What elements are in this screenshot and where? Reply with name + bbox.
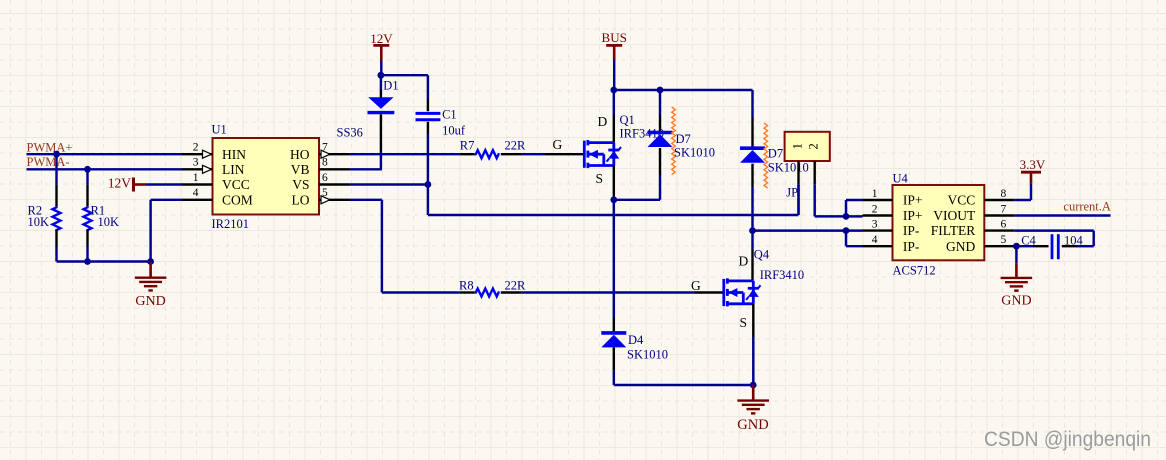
svg-text:HO: HO — [290, 147, 310, 162]
svg-text:VS: VS — [292, 177, 309, 192]
svg-text:3: 3 — [193, 157, 199, 169]
wire PWMA- net — [27, 168, 183, 170]
pin 1 of JP — [790, 143, 804, 184]
label R8 — [459, 279, 474, 293]
pin 6 FILTER — [931, 218, 1015, 238]
label U4 — [893, 172, 909, 186]
resistor R2 — [53, 154, 61, 261]
svg-text:C1: C1 — [442, 107, 457, 121]
wire FILTER to C4 — [1014, 231, 1093, 247]
svg-text:8: 8 — [1001, 188, 1007, 200]
wire IP- run — [753, 229, 847, 231]
label R1 — [91, 204, 106, 218]
svg-text:FILTER: FILTER — [931, 223, 976, 238]
wire HO to R7 — [350, 153, 460, 155]
svg-text:2: 2 — [193, 142, 199, 154]
pin 1 VCC — [182, 172, 250, 192]
power port 3.3V — [1020, 157, 1046, 184]
value IR2101 — [212, 217, 250, 231]
svg-text:22R: 22R — [505, 139, 527, 153]
power port 12V top — [370, 31, 393, 61]
junction Q1 source — [610, 196, 617, 203]
junction C1/VS — [425, 181, 432, 188]
net label current.A — [1063, 200, 1111, 214]
label D7 first — [676, 132, 691, 146]
wire R7 to Q1 gate — [522, 153, 545, 155]
junction pin5/C4/GND — [1013, 243, 1020, 250]
value IRF3410 of Q4 — [760, 268, 804, 282]
label Q1 — [620, 113, 635, 127]
wire D4 to GND rail — [614, 384, 753, 386]
compile squiggle at D7 second — [764, 123, 768, 188]
pin 1 IP+ — [863, 188, 923, 208]
svg-text:SK1010: SK1010 — [627, 348, 668, 362]
wire 12V to D1/C1 — [380, 61, 382, 75]
pin 2 IP+ — [863, 203, 923, 223]
svg-text:CSDN @jingbenqin: CSDN @jingbenqin — [984, 428, 1151, 451]
ground GND left — [135, 262, 167, 291]
diode D7 first — [648, 90, 673, 200]
junction at left GND — [147, 258, 154, 265]
transistor Q1 IRF3410 — [545, 90, 621, 200]
label U1 — [212, 123, 227, 137]
svg-text:GND: GND — [946, 239, 975, 254]
junction on PWMA+ at R2 — [53, 151, 60, 158]
svg-text:7: 7 — [1001, 203, 1007, 215]
label S of Q1 — [596, 171, 604, 186]
pin 6 VS — [292, 172, 349, 192]
label G of Q1 — [553, 137, 563, 152]
svg-text:8: 8 — [322, 157, 328, 169]
label G of Q4 — [691, 278, 701, 293]
value SK1010 of D4 — [627, 348, 668, 362]
junction IP+ node — [843, 213, 850, 220]
net label PWMA+ — [27, 141, 73, 155]
resistor R8 — [460, 289, 522, 297]
svg-text:GND: GND — [135, 294, 165, 309]
svg-text:VCC: VCC — [948, 193, 976, 208]
svg-text:GND: GND — [737, 417, 768, 433]
label D of Q4 — [739, 254, 749, 269]
svg-text:IP-: IP- — [903, 239, 920, 254]
wire R8 to Q4 gate — [522, 291, 695, 293]
value 22R of R7 — [505, 139, 527, 153]
svg-text:Q1: Q1 — [620, 113, 635, 127]
svg-text:SK1010: SK1010 — [768, 161, 809, 175]
wire IP+ to pins — [846, 200, 863, 216]
svg-text:current.A: current.A — [1063, 200, 1111, 214]
junction D7b/Q4 drain — [749, 227, 756, 234]
svg-text:3.3V: 3.3V — [1020, 157, 1046, 172]
pin 2 of JP — [807, 143, 821, 184]
wire IP- to pins — [846, 231, 863, 247]
svg-text:ACS712: ACS712 — [893, 263, 936, 277]
svg-text:IP+: IP+ — [903, 193, 923, 208]
svg-text:D1: D1 — [383, 79, 398, 93]
svg-text:12V: 12V — [108, 176, 132, 191]
svg-text:U1: U1 — [212, 123, 227, 137]
diode D7 second — [740, 118, 765, 231]
junction rail/D7a — [657, 87, 664, 94]
svg-text:IP-: IP- — [903, 223, 920, 238]
label C4 — [1021, 233, 1036, 247]
wire phase down — [613, 200, 615, 318]
svg-text:12V: 12V — [370, 31, 393, 46]
capacitor C1 — [416, 99, 441, 185]
diode D1 — [368, 75, 395, 169]
svg-text:U4: U4 — [893, 172, 909, 186]
wire to C1 top — [381, 75, 428, 99]
transistor Q4 IRF3410 — [695, 231, 761, 385]
wire Q1 source to D7a — [614, 199, 660, 201]
svg-text:C4: C4 — [1021, 233, 1036, 247]
ground GND right — [737, 385, 769, 413]
label D7 second — [768, 147, 783, 161]
svg-text:D7: D7 — [676, 132, 691, 146]
power port 12V left — [108, 176, 146, 192]
svg-text:7: 7 — [322, 142, 328, 154]
value SS36 of D1 — [337, 126, 363, 140]
value 22R of R8 — [505, 279, 527, 293]
pin 8 VB — [291, 157, 350, 177]
junction on PWMA- at R1 — [84, 166, 91, 173]
svg-text:D: D — [598, 114, 608, 129]
junction 12V/D1/C1 — [378, 72, 385, 79]
value 104 of C4 — [1064, 233, 1084, 247]
svg-text:S: S — [596, 171, 604, 186]
pin 3 LIN — [182, 157, 245, 177]
svg-text:BUS: BUS — [602, 30, 627, 45]
svg-text:2: 2 — [807, 143, 821, 149]
label Q4 — [754, 248, 770, 262]
svg-text:Q4: Q4 — [754, 248, 770, 262]
svg-text:S: S — [740, 315, 748, 330]
junction IP- node — [843, 227, 850, 234]
svg-text:IRF3410: IRF3410 — [760, 268, 804, 282]
resistor R1 — [84, 169, 92, 261]
wire R2/R1 bottom to GND — [57, 260, 151, 262]
wire JP2 to IP+ — [815, 184, 846, 216]
diode D4 — [601, 318, 626, 386]
svg-text:LIN: LIN — [222, 162, 245, 177]
pin 5 GND — [946, 234, 1014, 254]
value 10K of R2 — [28, 215, 50, 229]
value ACS712 — [893, 263, 936, 277]
value SK1010 of D7 first — [674, 146, 715, 160]
svg-text:6: 6 — [1001, 218, 1007, 230]
label GND under C4 — [1001, 294, 1031, 309]
svg-text:HIN: HIN — [222, 147, 246, 162]
pin 7 VIOUT — [933, 203, 1014, 223]
svg-text:1: 1 — [790, 143, 804, 149]
pin 2 HIN — [182, 142, 246, 162]
svg-text:10K: 10K — [28, 215, 50, 229]
label D of Q1 — [598, 114, 608, 129]
label R7 — [460, 139, 475, 153]
label JP — [786, 186, 798, 200]
pin 4 IP- — [863, 234, 920, 254]
svg-text:VCC: VCC — [222, 177, 250, 192]
svg-text:PWMA+: PWMA+ — [27, 141, 73, 155]
label GND right — [737, 417, 768, 433]
value 10K of R1 — [98, 215, 120, 229]
value SK1010 of D7 second — [768, 161, 809, 175]
label R2 — [28, 204, 43, 218]
svg-text:VB: VB — [291, 162, 310, 177]
wire 12V to VCC — [146, 183, 182, 185]
wire COM to GND — [151, 200, 182, 262]
svg-text:2: 2 — [872, 203, 878, 215]
svg-text:G: G — [691, 278, 701, 293]
wire VIOUT current.A — [1014, 214, 1110, 216]
ground GND under C4 — [1001, 246, 1033, 290]
svg-text:10uf: 10uf — [442, 124, 466, 138]
label S of Q4 — [740, 315, 748, 330]
svg-text:D7: D7 — [768, 147, 783, 161]
wire BUS down — [613, 60, 615, 90]
svg-text:LO: LO — [292, 192, 310, 207]
compile squiggle at D7 first — [672, 107, 676, 175]
svg-text:G: G — [553, 137, 563, 152]
pin 8 VCC — [948, 188, 1015, 208]
pin 3 IP- — [863, 218, 920, 238]
value 10uf of C1 — [442, 124, 466, 138]
junction BUS/Q1 drain — [610, 87, 617, 94]
svg-text:104: 104 — [1064, 233, 1084, 247]
wire JP1 down — [797, 184, 799, 215]
svg-text:4: 4 — [193, 187, 199, 199]
power port BUS — [602, 30, 627, 60]
svg-text:22R: 22R — [505, 279, 527, 293]
resistor R7 — [460, 150, 522, 158]
wire PWMA+ net — [27, 153, 183, 155]
net label PWMA- — [27, 155, 70, 169]
svg-text:R8: R8 — [459, 279, 474, 293]
watermark CSDN — [984, 428, 1151, 451]
label D1 — [383, 79, 398, 93]
svg-text:IP+: IP+ — [903, 208, 923, 223]
svg-text:1: 1 — [193, 172, 199, 184]
op-amp U4 ACS712 body — [893, 185, 985, 260]
op-amp U1 IR2101 body — [213, 138, 320, 215]
junction R1 bottom — [84, 258, 91, 265]
pin 5 LO — [292, 187, 350, 207]
svg-text:10K: 10K — [98, 215, 120, 229]
svg-text:COM: COM — [222, 192, 253, 207]
svg-text:R7: R7 — [460, 139, 475, 153]
label D4 — [628, 333, 644, 347]
svg-text:SS36: SS36 — [337, 126, 363, 140]
wire VS run — [428, 184, 799, 215]
pin 4 COM — [182, 187, 253, 207]
svg-text:VIOUT: VIOUT — [933, 208, 976, 223]
wire 3.3V to VCC — [1014, 184, 1031, 200]
wire VB net — [350, 168, 382, 170]
wire VS pin to C1 — [350, 183, 428, 185]
svg-text:IR2101: IR2101 — [212, 217, 250, 231]
label GND left — [135, 294, 165, 309]
svg-text:D: D — [739, 254, 749, 269]
junction at right GND — [750, 382, 757, 389]
svg-text:1: 1 — [872, 188, 878, 200]
svg-text:JP: JP — [786, 186, 798, 200]
svg-text:3: 3 — [872, 218, 878, 230]
svg-text:5: 5 — [1001, 234, 1007, 246]
connector JP body — [785, 132, 830, 161]
svg-text:5: 5 — [322, 187, 328, 199]
pin 7 HO — [290, 142, 350, 162]
value IRF3410 of Q1 — [620, 127, 664, 141]
svg-text:D4: D4 — [628, 333, 644, 347]
svg-text:GND: GND — [1001, 294, 1031, 309]
svg-text:4: 4 — [872, 234, 878, 246]
wire top rail — [614, 90, 753, 118]
capacitor C4 — [1016, 234, 1078, 259]
svg-text:SK1010: SK1010 — [674, 146, 715, 160]
wire LO run — [350, 200, 460, 293]
svg-text:PWMA-: PWMA- — [27, 155, 70, 169]
label C1 — [442, 107, 457, 121]
svg-text:6: 6 — [322, 172, 328, 184]
